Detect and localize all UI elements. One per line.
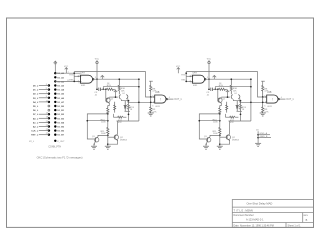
ground divider [105,146,111,149]
node left rail [86,120,88,122]
VCC symbol V3 (on gate output net) [101,75,105,79]
wire cap to resistor [100,88,106,90]
svg-text:23: 23 [46,125,48,127]
wire stub rail left upper [87,114,108,139]
net labels right column [57,72,64,137]
svg-text:Sheet 1 of 1: Sheet 1 of 1 [288,224,302,227]
pin stub circles gate1 [78,76,79,77]
node tie B [257,137,259,139]
ground R9 [148,113,154,116]
svg-text:T I T L E : MSMV: T I T L E : MSMV [234,208,254,212]
resistor R8 vertical above gate2 [150,86,152,98]
wire stub rail left lower [87,120,108,122]
svg-text:25: 25 [46,129,48,131]
node R8 to input1 [150,96,152,98]
wire divider mid [107,114,109,128]
wire dropline to cluster [138,102,140,121]
svg-text:2N3904: 2N3904 [120,140,128,142]
svg-text:100K: 100K [101,122,106,124]
svg-text:RST: RST [69,80,74,82]
resistor R14 vertical [128,101,130,112]
svg-text:OUT_1: OUT_1 [174,99,182,101]
node cluster bottom [128,113,130,115]
wire Q3 emitter down [93,145,95,147]
svg-text:Date: November 13, 1996 1:30: Date: November 13, 1996 1:30:46 PM [234,224,274,227]
wire W4 collector rail [109,96,118,98]
svg-text:S1_B1: S1_B1 [57,110,64,112]
svg-text:OKC (Schematic two F1 'D messa: OKC (Schematic two F1 'D messages) [37,155,83,159]
wire Q1 base from cap node [105,89,107,100]
cluster top rail [121,99,128,100]
svg-text:REV: REV [304,215,309,217]
diode D1 [124,101,126,112]
svg-text:19: 19 [46,117,48,119]
svg-text:S1_A7: S1_A7 [57,101,64,104]
svg-text:D0_L: D0_L [33,86,39,88]
svg-text:3: 3 [46,84,47,86]
svg-text:GND_A: GND_A [260,132,268,135]
node dropline [138,101,140,103]
svg-text:S1_B4: S1_B4 [57,121,64,124]
ground tie [255,143,261,146]
power VCC connector top [54,61,57,73]
unused gate tie-off (right sheet area) [255,130,271,147]
svg-text:U4B: U4B [155,92,160,94]
svg-text:A-123-MAD-2-1: A-123-MAD-2-1 [246,219,264,222]
connector pin dot bottom isolated [54,140,56,142]
wire divider bottom [107,134,109,146]
VCC symbol V2 (pull-up rail) [95,61,98,90]
svg-text:7: 7 [46,92,47,94]
svg-text:S1_A3: S1_A3 [57,85,64,88]
svg-text:D5_L: D5_L [33,106,39,108]
svg-text:9: 9 [46,96,47,98]
wire W1 top rail to gate2 input1 [74,72,154,97]
net labels left column [31,86,39,137]
svg-text:VCC: VCC [95,58,100,60]
monostable circuit (right instance, copy) [176,58,294,149]
resistor R16 vertical from output rail [118,79,120,94]
svg-text:S1_B6: S1_B6 [57,131,64,133]
connector pin dots right column [54,72,56,136]
node R9 tap input2 [150,101,152,103]
svg-text:A2_L: A2_L [33,126,39,129]
svg-text:A1_L: A1_L [33,121,39,124]
transistor Q3 [94,137,99,145]
ground Q3 [91,146,97,149]
svg-text:Document Number:: Document Number: [234,214,255,217]
svg-text:S1_A1: S1_A1 [57,76,64,79]
node W2 branch [138,78,140,80]
svg-text:CONN_PTH: CONN_PTH [48,147,61,149]
svg-text:D4_L: D4_L [33,101,39,104]
power tap T above R8 [149,81,153,85]
wires pin rows left column [39,86,49,135]
node divider bottom taps [107,135,109,137]
svg-text:S1_A0: S1_A0 [57,72,64,75]
wire C5 to gate2 input2 [128,99,139,103]
svg-text:11: 11 [46,100,48,102]
svg-text:TRG: TRG [69,75,74,77]
resistor R10 vertical [107,106,109,115]
capacitor C5 curved plate right [126,94,127,99]
node base feed [105,88,107,90]
pin numbers gate2 [152,96,171,108]
node R16 top [118,78,120,80]
pin stub circles gate2 [153,96,154,97]
NAND gate U4B [155,95,168,103]
capacitor C4 curved plate left [119,95,120,100]
svg-text:S1_A5: S1_A5 [57,93,64,96]
wire R12 stub left [112,114,114,117]
svg-text:D7_L: D7_L [33,114,39,116]
wire W3 mid rail [103,87,139,90]
svg-text:S1_B5: S1_B5 [57,127,64,129]
svg-text:100K: 100K [101,133,106,135]
svg-text:S1_A4: S1_A4 [57,89,64,92]
wire stub net B [258,137,271,139]
node cap rail [96,88,98,90]
wire R15 to node [114,88,116,90]
svg-text:One-Shot Delay MAD: One-Shot Delay MAD [247,202,273,206]
connector pin dots left column [48,84,50,103]
value labels [64,66,157,142]
wire gate inputs tie [74,72,81,82]
node tie A [257,134,259,136]
wire gate2 output [168,98,174,100]
wire W2 gate1 output rail [94,79,155,102]
wire tie vertical [257,131,259,143]
cluster bottom rail [125,110,130,112]
node input junctions [73,72,75,74]
svg-text:D3_L: D3_L [33,98,39,100]
wire connector pin3 to gate U4A input2 [55,80,81,82]
wire Q3 collector up to divider tap [98,135,108,136]
wire Q2 base [108,136,115,138]
svg-text:S1_B2: S1_B2 [57,114,64,116]
wire Q1 emitter to divider [108,103,110,105]
NAND gate U4A [81,75,94,83]
pin numbers left column [46,84,48,135]
resistor R13 vertical [114,102,116,113]
resistor R11 vertical [107,128,109,136]
node W2 power stem junction [96,78,98,80]
transistor Q2 [114,134,118,140]
VCC symbol V1 (gate U4A pin14) [65,68,68,74]
svg-text:X2_L: X2_L [29,141,35,143]
title block [232,200,313,228]
svg-text:17: 17 [46,113,48,115]
wire connector pin1 to gate U4A box [55,72,80,74]
svg-text:21: 21 [46,121,48,123]
resistor R12 horizontal [113,116,126,118]
wire long lower rail [117,120,139,122]
svg-text:S1_A6: S1_A6 [57,97,64,100]
svg-text:S1_B0: S1_B0 [57,106,64,108]
svg-text:CLK_L: CLK_L [31,131,39,133]
transistor Q1 [106,97,110,103]
wire Q2 emitter down to divider [108,141,118,145]
node W4 junction [115,96,117,98]
wire Q2 collector up [117,121,119,134]
svg-text:GND_B: GND_B [260,136,268,138]
node divider taps [107,113,109,115]
connector J1 [31,61,81,148]
monostable circuit (left instance) [64,58,182,149]
svg-text:D6_L: D6_L [33,110,39,112]
svg-text:S1_B3: S1_B3 [57,118,64,120]
svg-text:1D: 1D [256,130,259,132]
svg-text:27: 27 [46,133,48,135]
svg-text:K_OUT: K_OUT [57,141,65,143]
resistor R9 vertical below gate2 [150,97,152,113]
svg-text:D1_L: D1_L [33,90,39,92]
node cluster top [128,100,130,102]
svg-text:VCC: VCC [64,66,69,68]
svg-text:S1_A2: S1_A2 [57,80,64,83]
VCC symbol V4 on node [114,90,117,97]
wire Q1 collector up [108,96,110,98]
svg-text:5: 5 [46,88,47,90]
resistor R15 horizontal [107,88,114,90]
wire stub net A [258,134,270,136]
svg-text:S1_B7: S1_B7 [57,135,64,137]
svg-text:RST_L: RST_L [31,135,39,137]
wire cluster down [128,111,130,121]
capacitor C3 [99,88,101,91]
svg-text:D2_L: D2_L [33,94,39,96]
pin numbers gate1 [79,75,97,84]
svg-text:A0_L: A0_L [33,117,39,120]
node W3 joins [138,86,140,88]
